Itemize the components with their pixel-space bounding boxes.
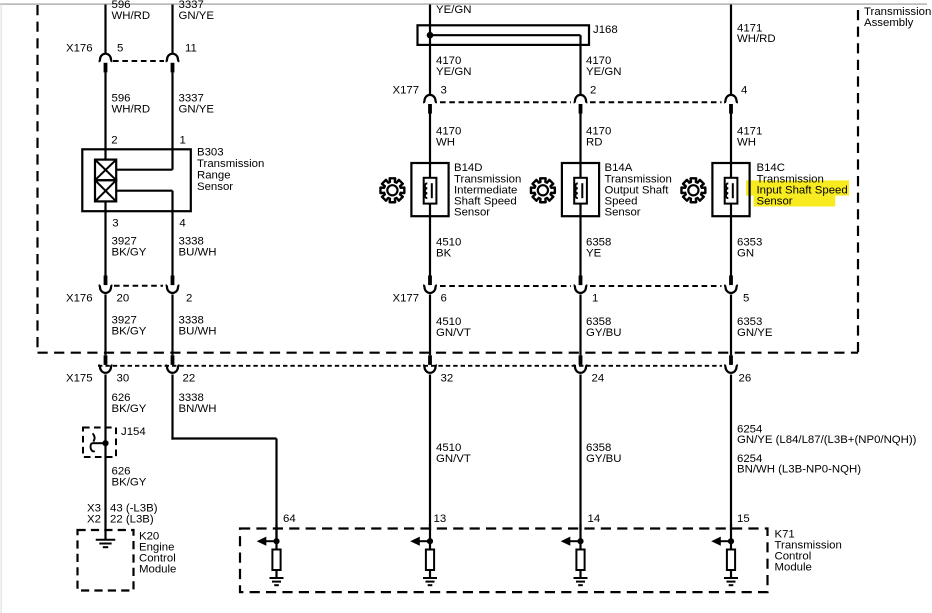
svg-text:WH/RD: WH/RD bbox=[112, 10, 151, 22]
svg-text:Sensor: Sensor bbox=[454, 207, 490, 219]
svg-text:6: 6 bbox=[441, 293, 447, 305]
svg-text:3927: 3927 bbox=[112, 236, 137, 248]
svg-text:5: 5 bbox=[743, 293, 749, 305]
svg-text:WH: WH bbox=[737, 137, 756, 149]
svg-text:GY/BU: GY/BU bbox=[586, 327, 621, 339]
svg-text:YE/GN: YE/GN bbox=[436, 4, 471, 16]
svg-text:Sensor: Sensor bbox=[757, 196, 793, 208]
svg-text:2: 2 bbox=[590, 85, 596, 97]
svg-text:X175: X175 bbox=[66, 373, 93, 385]
svg-text:2: 2 bbox=[186, 293, 192, 305]
svg-text:5: 5 bbox=[117, 43, 123, 55]
svg-text:13: 13 bbox=[434, 513, 447, 525]
svg-text:YE/GN: YE/GN bbox=[586, 66, 621, 78]
svg-text:20: 20 bbox=[117, 293, 130, 305]
svg-text:X176: X176 bbox=[66, 293, 93, 305]
svg-text:BK/GY: BK/GY bbox=[112, 403, 147, 415]
svg-text:X177: X177 bbox=[393, 293, 420, 305]
svg-text:Sensor: Sensor bbox=[605, 207, 641, 219]
svg-text:GY/BU: GY/BU bbox=[586, 453, 621, 465]
svg-text:32: 32 bbox=[441, 373, 454, 385]
svg-text:15: 15 bbox=[737, 513, 750, 525]
svg-text:30: 30 bbox=[117, 373, 130, 385]
svg-text:3338: 3338 bbox=[179, 314, 204, 326]
svg-text:GN/VT: GN/VT bbox=[436, 327, 471, 339]
svg-text:2: 2 bbox=[111, 135, 117, 147]
svg-text:3: 3 bbox=[441, 85, 447, 97]
svg-text:11: 11 bbox=[185, 43, 197, 55]
svg-text:X176: X176 bbox=[66, 43, 93, 55]
svg-text:WH/RD: WH/RD bbox=[112, 104, 151, 116]
svg-text:3: 3 bbox=[112, 217, 118, 229]
svg-text:GN: GN bbox=[737, 248, 754, 260]
svg-text:Sensor: Sensor bbox=[197, 181, 233, 193]
svg-text:3338: 3338 bbox=[179, 236, 204, 248]
svg-text:J168: J168 bbox=[593, 24, 618, 36]
svg-text:GN/VT: GN/VT bbox=[436, 453, 471, 465]
svg-text:22: 22 bbox=[183, 373, 196, 385]
svg-text:4: 4 bbox=[741, 85, 747, 97]
svg-text:BU/WH: BU/WH bbox=[179, 247, 217, 259]
svg-text:WH: WH bbox=[436, 137, 455, 149]
svg-text:26: 26 bbox=[739, 373, 752, 385]
svg-text:Range: Range bbox=[197, 170, 231, 182]
svg-text:BN/WH: BN/WH bbox=[179, 403, 217, 415]
svg-text:BN/WH (L3B-NP0-NQH): BN/WH (L3B-NP0-NQH) bbox=[737, 464, 861, 476]
svg-text:64: 64 bbox=[283, 513, 296, 525]
svg-text:X2: X2 bbox=[87, 514, 101, 526]
svg-text:GN/YE: GN/YE bbox=[179, 10, 215, 22]
svg-text:4: 4 bbox=[179, 217, 185, 229]
svg-text:GN/YE: GN/YE bbox=[737, 327, 773, 339]
svg-text:BK: BK bbox=[436, 248, 452, 260]
svg-text:J154: J154 bbox=[121, 426, 146, 438]
svg-text:X177: X177 bbox=[393, 85, 420, 97]
svg-text:GN/YE: GN/YE bbox=[179, 104, 215, 116]
svg-text:Module: Module bbox=[775, 562, 812, 574]
svg-text:1: 1 bbox=[180, 135, 186, 147]
svg-text:Module: Module bbox=[139, 564, 176, 576]
svg-text:B303: B303 bbox=[197, 147, 224, 159]
svg-text:YE: YE bbox=[586, 248, 602, 260]
svg-text:BK/GY: BK/GY bbox=[112, 477, 147, 489]
svg-text:Assembly: Assembly bbox=[864, 17, 914, 29]
svg-text:BK/GY: BK/GY bbox=[112, 247, 147, 259]
svg-text:RD: RD bbox=[586, 137, 602, 149]
svg-text:WH/RD: WH/RD bbox=[737, 33, 776, 45]
svg-text:YE/GN: YE/GN bbox=[436, 66, 471, 78]
svg-text:GN/YE (L84/L87/(L3B+(NP0/NQH)): GN/YE (L84/L87/(L3B+(NP0/NQH)) bbox=[737, 434, 917, 446]
svg-text:24: 24 bbox=[592, 373, 605, 385]
svg-text:BK/GY: BK/GY bbox=[112, 326, 147, 338]
svg-text:22 (L3B): 22 (L3B) bbox=[110, 514, 154, 526]
svg-text:BU/WH: BU/WH bbox=[179, 326, 217, 338]
svg-text:14: 14 bbox=[588, 513, 601, 525]
svg-text:Transmission: Transmission bbox=[197, 158, 264, 170]
svg-text:3927: 3927 bbox=[112, 314, 137, 326]
svg-text:1: 1 bbox=[592, 293, 598, 305]
